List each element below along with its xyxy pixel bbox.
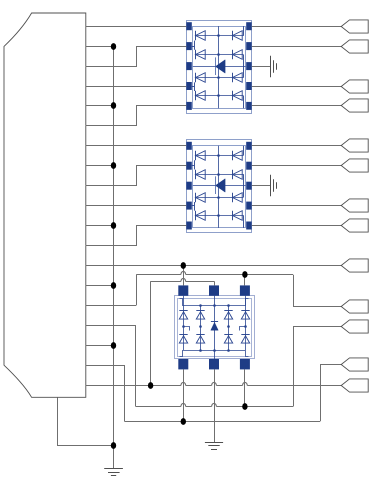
wire pin16 routed under Q1 (H3) — [86, 325, 136, 327]
terminal T3 — [341, 80, 368, 93]
node junction pin11/bus — [111, 222, 116, 229]
wire pin15 routed over Q1 (L2) — [86, 305, 136, 307]
node junction shell/bus — [111, 442, 116, 449]
wire GND bus vertical — [113, 46, 115, 445]
wire U1 pad3 to ground — [252, 66, 271, 68]
terminal T1 — [341, 20, 368, 33]
terminal T11 — [341, 320, 368, 333]
terminal T7 — [341, 199, 368, 212]
ground (U2) — [270, 175, 272, 196]
wire U1 pad2 to terminal — [252, 46, 341, 48]
wire U1 pad5 to terminal — [252, 105, 341, 107]
wire pin2 to GND bus — [86, 46, 114, 48]
wire U2 pad3 to ground — [252, 185, 271, 187]
node junction K17/Q1-pad1-bottom — [181, 418, 186, 425]
wire U1 pad1 to terminal — [252, 26, 341, 28]
diode array U2 (middle IC) — [186, 140, 251, 233]
ground (below Q1) — [205, 442, 223, 444]
terminal T9 — [341, 259, 368, 272]
wire U2 pad2 to terminal — [252, 165, 341, 167]
terminal T2 — [341, 40, 368, 53]
wire pin18 routed under Q1 (K17) — [86, 365, 125, 367]
wire Q1 bottom pad3 drop — [244, 369, 246, 406]
wire connector shell to GND — [58, 398, 114, 446]
wire pin9 to U2 pad2 (step) — [86, 166, 187, 186]
wire pin7 to U2 pad1 — [86, 145, 187, 147]
wire pin14 to GND bus — [86, 285, 114, 287]
wire Q1 top pad1 drop — [183, 265, 185, 285]
wire Q1 top pad3 drop — [244, 275, 246, 286]
wire pin4 to U1 pad4 — [86, 86, 187, 88]
wire pin13 to terminal (L1) — [86, 265, 341, 267]
wire pin17 to GND bus — [86, 345, 114, 347]
node junction H1/wireM — [148, 382, 153, 389]
node junction pin2/bus — [111, 43, 116, 50]
terminal T12 — [341, 358, 368, 371]
connector J1 (20-pin body) — [4, 13, 86, 397]
wire Q1 bottom pad1 drop — [183, 369, 185, 421]
wire pin10 to U2 pad4 — [86, 205, 187, 207]
wire pin1 to U1 pad1 — [86, 26, 187, 28]
wire U2 pad4 to terminal — [252, 205, 341, 207]
terminal T13 — [341, 379, 368, 392]
wire Q1 bottom pad2 to ground — [214, 369, 216, 442]
node junction H3/Q1-pad3-bottom — [242, 403, 247, 410]
wire U2 pad5 to terminal — [252, 225, 341, 227]
node junction L1/Q1-pad1 — [181, 262, 186, 269]
wire pin12 to U2 pad5 (step) — [86, 226, 187, 246]
wire M (pin19 junction up to Q1 pad2) — [150, 281, 152, 385]
diode array U1 (top IC) — [186, 21, 251, 114]
terminal T5 — [341, 139, 368, 152]
diode bridge Q1 (bottom IC) — [175, 285, 255, 369]
node junction L2/Q1-pad3 — [242, 271, 247, 278]
wire U2 pad1 to terminal — [252, 145, 341, 147]
wire pin5 to GND bus — [86, 105, 114, 107]
wire pin8 to GND bus — [86, 165, 114, 167]
terminal T8 — [341, 219, 368, 232]
node junction pin17/bus — [111, 342, 116, 349]
wire pin6 to U1 pad5 (step) — [86, 106, 187, 126]
wire pin19 to terminal (H1) — [86, 385, 181, 387]
ground (U1) — [270, 56, 272, 77]
wire pin11 to GND bus — [86, 225, 114, 227]
wire U1 pad4 to terminal — [252, 86, 341, 88]
terminal T6 — [341, 159, 368, 172]
ground (bottom left) — [113, 445, 115, 468]
wire pin3 to U1 pad2 (step) — [86, 47, 187, 67]
node junction pin8/bus — [111, 162, 116, 169]
terminal T10 — [341, 300, 368, 313]
terminal T4 — [341, 99, 368, 112]
node junction pin5/bus — [111, 102, 116, 109]
node junction pin14/bus — [111, 282, 116, 289]
